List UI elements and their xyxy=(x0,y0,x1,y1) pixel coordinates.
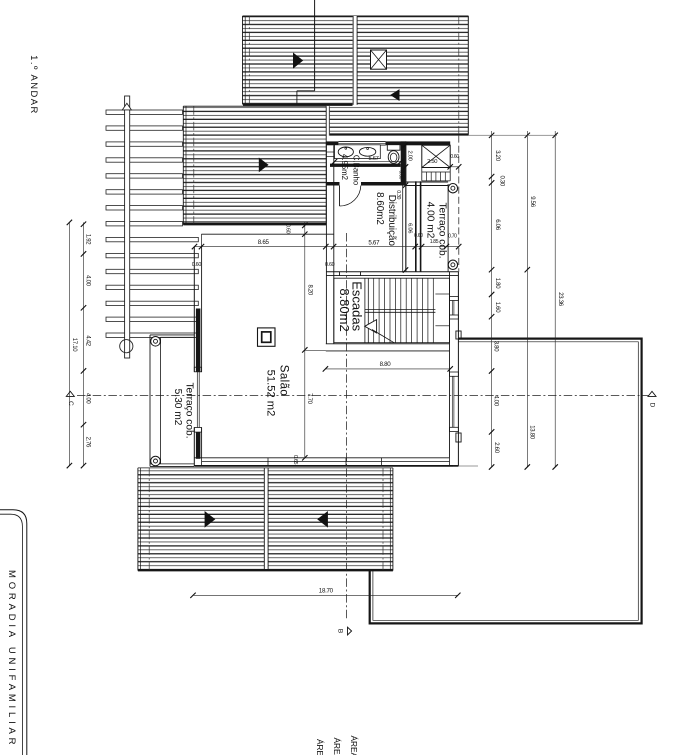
west door jambs xyxy=(194,367,201,372)
pergola post xyxy=(125,96,130,358)
svg-text:0.60: 0.60 xyxy=(414,233,423,239)
terrace 5.30 railing xyxy=(149,335,151,467)
svg-text:2.60: 2.60 xyxy=(493,442,499,453)
svg-text:8.60m2: 8.60m2 xyxy=(374,192,385,225)
title block border xyxy=(0,510,27,755)
right dim line 2 xyxy=(526,131,528,467)
pergola slats xyxy=(106,110,183,114)
terrace 4.00 east edge xyxy=(447,184,449,272)
svg-text:17.10: 17.10 xyxy=(71,338,77,352)
svg-text:9.56: 9.56 xyxy=(529,196,535,207)
Salao north upper-floor edge line xyxy=(201,233,334,235)
roof A right panel eave (thick) xyxy=(330,133,469,135)
svg-text:MORADIA UNIFAMILIAR: MORADIA UNIFAMILIAR xyxy=(6,570,17,748)
svg-text:8.80m2: 8.80m2 xyxy=(337,288,352,331)
stair projection outline on roof xyxy=(297,90,315,92)
stair treads xyxy=(373,278,375,343)
terrace 4.00 ring column top xyxy=(448,184,457,193)
dim 2.00/6.06 line xyxy=(405,145,407,270)
svg-text:13.80: 13.80 xyxy=(528,425,534,439)
svg-text:C: C xyxy=(67,401,74,406)
svg-text:C.Banho: C.Banho xyxy=(352,155,361,186)
roof A slope arrow right xyxy=(390,89,399,101)
WC nook wall xyxy=(401,141,406,185)
pergola post bracket xyxy=(122,103,131,110)
svg-text:0.60: 0.60 xyxy=(450,154,459,160)
basin oval 2 xyxy=(359,147,375,156)
bottom roof slope arrow right block xyxy=(317,511,328,528)
roof A axis dash line right xyxy=(458,16,460,134)
svg-text:1.º ANDAR: 1.º ANDAR xyxy=(29,55,40,115)
axis C-D dash-dot line xyxy=(77,395,656,397)
east wall window W2 xyxy=(450,372,459,376)
dim 0.60 at box right xyxy=(450,166,459,168)
bath window marks on west band xyxy=(326,151,333,153)
svg-text:ÁREA: ÁREA xyxy=(332,738,342,755)
washbasin counter xyxy=(335,145,381,159)
stair mid landing line xyxy=(365,309,436,311)
svg-text:51.52 m2: 51.52 m2 xyxy=(264,370,276,417)
roof B eave (thick) xyxy=(183,223,326,225)
east wall window W1 xyxy=(450,297,459,301)
svg-text:0.30: 0.30 xyxy=(498,175,504,186)
svg-text:Distribuição: Distribuição xyxy=(386,195,397,247)
left chain dims xyxy=(83,222,85,465)
Distribuicao east wall lines xyxy=(402,186,404,272)
extension line top right xyxy=(469,134,558,136)
svg-text:4.00: 4.00 xyxy=(493,395,499,406)
Salao west wall solid pier xyxy=(196,309,201,372)
Salao south wall xyxy=(194,457,449,459)
svg-text:0.60: 0.60 xyxy=(192,262,202,268)
roof A left panel eave (thick) xyxy=(243,104,353,106)
corridor south wall with door opening xyxy=(326,182,339,186)
double rail wall to terrace 4.00 xyxy=(415,181,417,271)
Salao west wall inner face xyxy=(201,247,203,372)
svg-text:23.36: 23.36 xyxy=(557,292,563,306)
svg-text:4.00: 4.00 xyxy=(85,393,91,404)
Escadas south wall xyxy=(326,343,450,345)
svg-text:1.60: 1.60 xyxy=(494,302,500,313)
svg-text:1.92: 1.92 xyxy=(85,234,91,245)
east exterior pier at lower-terrace junction xyxy=(456,331,461,339)
svg-text:3.80: 3.80 xyxy=(493,341,499,352)
svg-text:2.00: 2.00 xyxy=(406,150,412,160)
Salao west wall outer face xyxy=(193,247,195,372)
Salao west glass door xyxy=(196,372,198,428)
svg-text:5.67: 5.67 xyxy=(368,240,380,247)
roof A top hatched block xyxy=(243,16,353,105)
svg-text:0.70: 0.70 xyxy=(448,234,457,240)
lower terrace deck outline xyxy=(370,339,642,624)
svg-text:5.30 m2: 5.30 m2 xyxy=(172,389,183,426)
dim chain 8.65 / 5.67 line xyxy=(195,246,459,248)
svg-text:4.42: 4.42 xyxy=(85,335,91,346)
stair right landing xyxy=(435,293,449,295)
left overall dim 17.10 xyxy=(68,222,70,465)
axis marker B xyxy=(348,627,352,635)
right dim line 1 xyxy=(491,131,493,467)
svg-text:1.80: 1.80 xyxy=(494,278,500,289)
svg-text:D: D xyxy=(649,403,656,408)
east exterior pier south xyxy=(456,433,461,442)
central dividing wall (west rooms / east rooms) xyxy=(325,142,327,344)
roof A ridge divider xyxy=(353,16,357,105)
svg-text:8.65: 8.65 xyxy=(258,239,270,246)
svg-text:0.60: 0.60 xyxy=(398,170,404,179)
chimney crossed box on roof A xyxy=(371,50,387,69)
svg-text:4.95m2: 4.95m2 xyxy=(340,154,349,180)
stair enclosure xyxy=(334,278,450,343)
bottom roof left hatched block xyxy=(138,468,264,570)
roof B hatched block xyxy=(183,106,326,225)
axis marker D xyxy=(648,391,656,396)
right dim line 3 xyxy=(554,131,556,467)
svg-text:8.80: 8.80 xyxy=(380,361,392,368)
svg-text:2.76: 2.76 xyxy=(85,437,91,448)
stair direction arrow xyxy=(365,320,377,333)
dim 8.20/7.70 line xyxy=(304,222,306,458)
toilet xyxy=(387,145,400,151)
door Banho xyxy=(339,186,341,207)
bottom roof axis dash lines xyxy=(148,468,150,570)
roof B axis dash line xyxy=(193,106,195,223)
column in Salao xyxy=(258,328,276,346)
pergola post base ring xyxy=(120,340,133,353)
north wall of bath band (thick) xyxy=(326,141,338,145)
skylight crossed box xyxy=(422,145,450,167)
dim 5.67 Banho xyxy=(335,161,401,163)
svg-text:0.60: 0.60 xyxy=(325,262,335,268)
dim 8.80 xyxy=(325,368,450,370)
svg-text:ÁREAS: ÁREAS xyxy=(349,736,359,755)
svg-text:3.20: 3.20 xyxy=(494,150,500,161)
svg-text:4.00 m2: 4.00 m2 xyxy=(425,202,436,239)
svg-text:7.70: 7.70 xyxy=(306,393,312,404)
svg-text:4.00: 4.00 xyxy=(85,275,91,286)
Escadas north wall xyxy=(326,271,458,273)
section line at top xyxy=(314,0,316,91)
terrace 5.30 column bottom xyxy=(151,456,161,466)
roof B slope arrow xyxy=(259,158,269,173)
entry steps below box xyxy=(421,168,423,181)
bottom roof slope arrow left block xyxy=(205,511,216,528)
house east wall xyxy=(449,272,451,458)
svg-text:5.67: 5.67 xyxy=(368,156,378,162)
terrace 5.30 column top xyxy=(151,337,161,347)
axis B dash-dot line xyxy=(346,233,348,620)
roof A slope arrow left xyxy=(293,53,303,69)
svg-text:18.70: 18.70 xyxy=(319,587,334,594)
extension stub bottom xyxy=(453,465,478,467)
svg-text:ÁREA: ÁREA xyxy=(315,739,325,755)
svg-text:Salão: Salão xyxy=(277,365,289,396)
bottom roofs eave (thick) xyxy=(138,569,393,571)
stair start double line xyxy=(364,278,366,343)
svg-text:6.06: 6.06 xyxy=(494,219,500,230)
axis marker C xyxy=(66,391,74,396)
svg-text:2.50: 2.50 xyxy=(427,159,437,165)
svg-text:8.20: 8.20 xyxy=(307,284,313,295)
bottom roof right hatched block xyxy=(268,468,393,570)
svg-text:Terraço cob.: Terraço cob. xyxy=(184,382,195,438)
roof A outline xyxy=(243,15,469,17)
svg-text:Terraço cob.: Terraço cob. xyxy=(436,202,447,258)
svg-text:6.06: 6.06 xyxy=(406,223,412,233)
roof A axis dash line left xyxy=(248,16,250,105)
extension line to dim xyxy=(305,349,326,351)
roof overhang dashed line xyxy=(458,136,460,272)
svg-text:B: B xyxy=(336,629,343,633)
svg-text:0.65: 0.65 xyxy=(292,455,298,465)
basin oval 1 xyxy=(338,147,353,157)
terrace 4.00 ring column bottom xyxy=(448,260,457,269)
dim 18.70 xyxy=(193,594,458,596)
Banho/Distribuicao wall xyxy=(330,164,401,167)
svg-text:0.60: 0.60 xyxy=(285,224,291,234)
